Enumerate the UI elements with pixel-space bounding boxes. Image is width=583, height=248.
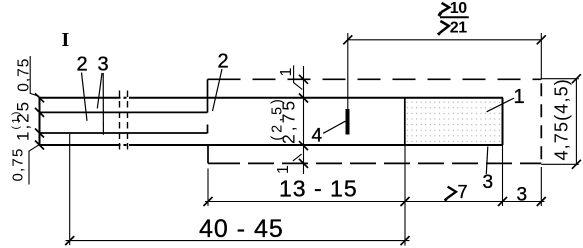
svg-text:13 - 15: 13 - 15 xyxy=(279,176,358,202)
svg-text:21: 21 xyxy=(450,19,467,36)
svg-text:4: 4 xyxy=(312,125,323,146)
svg-text:1: 1 xyxy=(278,68,295,77)
svg-text:(1): (1) xyxy=(10,109,22,129)
svg-text:4,75(4,5): 4,75(4,5) xyxy=(552,78,572,160)
svg-text:7: 7 xyxy=(458,182,468,202)
svg-text:0,75: 0,75 xyxy=(10,148,27,182)
svg-text:2,75: 2,75 xyxy=(279,98,299,144)
svg-text:10: 10 xyxy=(450,0,467,17)
svg-text:0,75: 0,75 xyxy=(16,58,33,92)
svg-text:3: 3 xyxy=(98,54,109,76)
svg-text:3: 3 xyxy=(483,172,494,193)
svg-text:1: 1 xyxy=(275,165,292,174)
svg-text:40 - 45: 40 - 45 xyxy=(199,215,284,243)
svg-text:1: 1 xyxy=(514,86,525,108)
svg-text:3: 3 xyxy=(517,185,528,206)
svg-text:I: I xyxy=(62,29,70,51)
svg-text:2: 2 xyxy=(218,50,229,72)
svg-text:2: 2 xyxy=(77,54,88,76)
